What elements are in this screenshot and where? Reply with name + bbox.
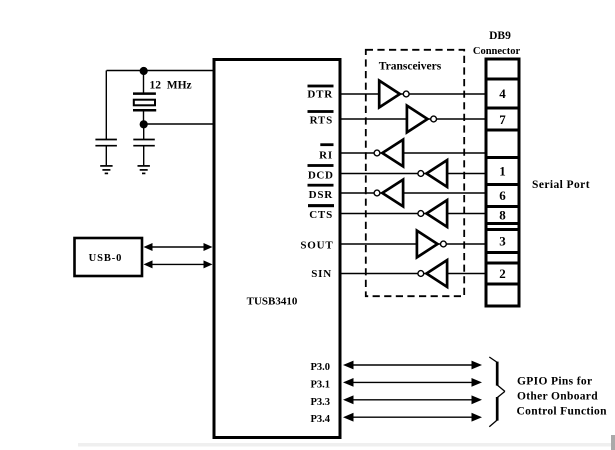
svg-text:GPIO Pins for: GPIO Pins for xyxy=(517,375,592,387)
buffer: DSR receiver xyxy=(374,180,403,207)
wire: SIN to DB9 pin 2 xyxy=(342,273,487,275)
svg-text:RI: RI xyxy=(319,149,333,161)
connector divider 2 xyxy=(486,107,519,110)
USB-0 connector box xyxy=(75,238,143,276)
wire: RI to DB9 xyxy=(342,152,487,154)
connector divider 9 xyxy=(486,251,519,254)
capacitor C1 xyxy=(95,140,117,166)
wire: DTR to DB9 pin 4 xyxy=(342,93,487,95)
svg-text:DB9: DB9 xyxy=(489,30,511,42)
svg-text:1: 1 xyxy=(499,164,506,179)
connector divider 1 xyxy=(486,78,519,81)
svg-text:8: 8 xyxy=(499,208,506,223)
ground: under C1 xyxy=(100,166,112,174)
wire: crystal top rail to TUSB3410 xyxy=(107,70,215,72)
ground: under C2 xyxy=(138,166,150,174)
svg-text:4: 4 xyxy=(499,86,506,101)
wire: left vertical to capacitor C1 xyxy=(105,71,107,140)
wire: P3.1 GPIO arrow xyxy=(343,378,482,387)
wire: P3.0 GPIO arrow xyxy=(343,361,482,370)
connector divider 7 xyxy=(486,222,519,225)
IC U1 TUSB3410 xyxy=(214,60,340,438)
connector J1 DB9 body xyxy=(486,59,519,306)
pin label DCD (active low) xyxy=(308,164,334,182)
connector divider 8 xyxy=(486,228,519,231)
svg-text:12 MHz: 12 MHz xyxy=(150,80,192,92)
svg-text:2: 2 xyxy=(499,266,506,281)
artifact: corner smudge xyxy=(611,435,615,450)
wire: DCD to DB9 pin 1 xyxy=(342,173,487,175)
node: junction bottom xyxy=(140,120,148,128)
svg-text:Control Function: Control Function xyxy=(517,405,608,417)
svg-text:P3.3: P3.3 xyxy=(310,397,330,408)
svg-text:7: 7 xyxy=(499,112,506,127)
wire: P3.4 GPIO arrow xyxy=(343,413,482,422)
svg-text:SIN: SIN xyxy=(311,268,332,280)
transceivers dashed enclosure xyxy=(366,50,464,296)
connector divider 4 xyxy=(486,156,519,159)
artifact: bottom shadow band xyxy=(78,443,615,447)
wire: DSR to DB9 pin 6 xyxy=(342,192,487,194)
node: junction top xyxy=(140,67,148,75)
wire: RTS to DB9 pin 7 xyxy=(342,118,487,120)
svg-text:Serial Port: Serial Port xyxy=(532,179,590,191)
wire: lead to capacitor C2 xyxy=(143,124,145,139)
buffer: SIN receiver xyxy=(418,260,447,287)
wire: P3.3 GPIO arrow xyxy=(343,395,482,404)
svg-text:3: 3 xyxy=(499,234,506,249)
connector divider 11 xyxy=(486,283,519,286)
svg-text:Transceivers: Transceivers xyxy=(379,60,442,72)
buffer: DCD receiver xyxy=(418,160,447,187)
buffer: SOUT driver xyxy=(417,231,446,258)
connector divider 6 xyxy=(486,205,519,208)
svg-text:SOUT: SOUT xyxy=(300,239,333,251)
pin label CTS (active low) xyxy=(308,204,334,221)
buffer: RI receiver xyxy=(374,140,403,167)
wire: USB bus arrow 2 xyxy=(144,260,213,268)
buffer: RTS driver xyxy=(407,106,437,133)
pin label DTR (active low) xyxy=(307,85,333,101)
svg-text:CTS: CTS xyxy=(309,209,333,221)
svg-text:P3.1: P3.1 xyxy=(310,379,330,390)
svg-text:Other Onboard: Other Onboard xyxy=(517,390,598,402)
connector divider 3 xyxy=(486,129,519,132)
buffer: CTS receiver xyxy=(418,200,447,227)
svg-text:RTS: RTS xyxy=(310,114,333,126)
svg-text:DTR: DTR xyxy=(307,89,333,101)
svg-text:DCD: DCD xyxy=(308,170,334,182)
svg-text:DSR: DSR xyxy=(309,189,334,201)
connector divider 10 xyxy=(486,262,519,265)
wire: SOUT to DB9 pin 3 xyxy=(342,243,487,245)
capacitor C2 xyxy=(133,140,155,166)
connector divider 5 xyxy=(486,183,519,186)
wire: CTS to DB9 pin 8 xyxy=(342,213,487,215)
svg-text:P3.4: P3.4 xyxy=(310,414,330,425)
svg-text:TUSB3410: TUSB3410 xyxy=(247,296,298,308)
pin label RTS (active low) xyxy=(308,110,334,126)
svg-text:Connector: Connector xyxy=(473,46,521,57)
svg-text:6: 6 xyxy=(499,188,506,203)
wire: USB bus arrow 1 xyxy=(144,243,213,251)
pin label RI (active low) xyxy=(319,143,333,161)
svg-text:P3.0: P3.0 xyxy=(310,362,330,373)
buffer: DTR driver xyxy=(379,81,409,108)
crystal Y1 12 MHz xyxy=(133,94,156,111)
wire: crystal bottom lead xyxy=(143,110,145,124)
brace: GPIO group xyxy=(489,357,505,427)
wire: crystal top lead xyxy=(143,71,145,93)
wire: bottom rail to TUSB3410 xyxy=(144,123,215,125)
svg-text:USB-0: USB-0 xyxy=(89,253,123,264)
pin label DSR (active low) xyxy=(308,184,334,201)
